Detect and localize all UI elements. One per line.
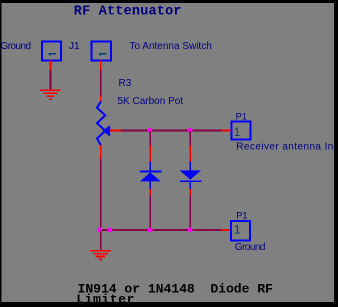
svg-text:To Antenna Switch: To Antenna Switch — [130, 41, 212, 52]
bottom horizontal wire — [100, 229, 222, 231]
junction node left diode bottom — [148, 228, 153, 233]
svg-text:Ground: Ground — [235, 242, 265, 253]
wire left diode to bottom — [149, 195, 151, 230]
pin of lower P1 — [222, 229, 231, 231]
pin of upper P1 — [222, 130, 231, 132]
pot bottom pin — [100, 145, 102, 158]
connector J1 box (to antenna switch) — [92, 41, 111, 60]
connector P1 upper box — [231, 122, 250, 140]
pot wiper pin (red) — [110, 130, 121, 132]
wire corner to ground — [100, 231, 102, 250]
potentiometer R3 zigzag — [97, 102, 105, 146]
wire top to left diode — [149, 131, 151, 146]
left diode top pin — [149, 146, 151, 162]
connector J1 ground box — [42, 41, 61, 60]
svg-text:Receiver antenna Input: Receiver antenna Input — [236, 142, 338, 153]
wire top to right diode — [189, 131, 191, 146]
svg-text:P1: P1 — [236, 112, 247, 122]
junction node right of corner — [108, 228, 113, 233]
wire wiper to P1 (top horizontal) — [121, 130, 222, 132]
junction node at left diode top — [148, 128, 153, 133]
wire J1 to potentiometer — [100, 70, 102, 96]
left diode bottom pin — [149, 189, 151, 195]
diode D1 (anode down, cathode bar on top) — [140, 161, 162, 189]
svg-text:R3: R3 — [119, 78, 132, 89]
pot top pin — [100, 96, 102, 103]
junction node right diode bottom — [188, 228, 193, 233]
pot wiper arrow — [102, 125, 110, 136]
wire left box to ground — [50, 70, 52, 90]
svg-text:5K Carbon Pot: 5K Carbon Pot — [118, 96, 184, 107]
wire pot bottom down to corner — [100, 159, 102, 231]
svg-text:1: 1 — [234, 223, 241, 237]
pin 1 of left box — [50, 61, 52, 71]
junction node at corner — [97, 228, 102, 233]
pin of right J1 box — [100, 61, 102, 71]
ground (left) — [40, 90, 61, 101]
svg-text:P1: P1 — [236, 211, 247, 221]
svg-text:Ground: Ground — [1, 41, 31, 52]
diode D2 (anode up, cathode bar below) — [180, 161, 202, 189]
junction node at right diode top — [188, 128, 193, 133]
right diode bottom pin — [189, 189, 191, 195]
svg-text:1: 1 — [234, 125, 241, 139]
svg-text:RF Attenuator: RF Attenuator — [74, 5, 182, 20]
ground (bottom) — [90, 250, 111, 261]
right diode top pin — [189, 146, 191, 162]
connector P1 lower box — [231, 221, 250, 240]
wire right diode to bottom — [189, 195, 191, 230]
svg-text:J1: J1 — [69, 41, 80, 52]
